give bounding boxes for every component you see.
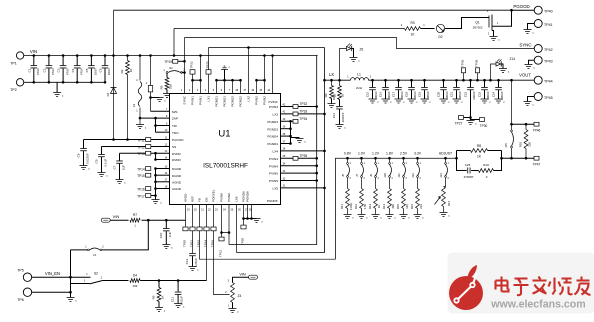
svg-text:R11: R11 <box>340 204 344 209</box>
svg-text:TP26: TP26 <box>211 240 215 248</box>
svg-text:TP43: TP43 <box>544 59 553 63</box>
svg-text:TP1: TP1 <box>10 62 17 66</box>
svg-text:0.022UF: 0.022UF <box>85 153 89 164</box>
wire TDI TDO tie <box>155 118 157 132</box>
wire FB select bus <box>336 158 457 259</box>
wire PVIN2 riser <box>257 79 265 81</box>
ground M/S <box>151 97 160 99</box>
svg-text:TP30: TP30 <box>480 124 488 128</box>
svg-text:TP38: TP38 <box>475 59 479 67</box>
capacitor C16 <box>384 79 387 82</box>
wire VOUT to divider <box>510 79 513 82</box>
svg-text:R17: R17 <box>447 200 451 206</box>
svg-text:PGND6: PGND6 <box>246 191 250 202</box>
capacitor C2 <box>48 56 50 66</box>
svg-text:1.2V: 1.2V <box>372 152 380 156</box>
svg-text:S1: S1 <box>169 66 173 70</box>
op-amp U1 ISL70001SRHF body <box>170 94 281 205</box>
resistor R7 <box>129 217 142 223</box>
test point TP6 <box>23 288 31 296</box>
capacitor C10 <box>165 220 167 228</box>
test point TP46 <box>534 122 539 126</box>
test point TP44 <box>534 76 542 84</box>
fuse J2 <box>150 56 152 112</box>
wire LX4 pin 36 <box>281 150 325 152</box>
svg-text:TP42: TP42 <box>544 48 553 52</box>
svg-text:TP19: TP19 <box>164 60 172 64</box>
svg-text:LX6: LX6 <box>235 196 239 202</box>
svg-text:L1: L1 <box>357 72 361 76</box>
capacitor C24 <box>497 79 500 82</box>
wire PGND1 PGND2 tie <box>217 79 241 81</box>
svg-text:TP40: TP40 <box>544 10 553 14</box>
capacitor C3 <box>62 56 64 66</box>
test point TP36 <box>461 68 465 73</box>
wire DVDD pin line <box>120 152 170 154</box>
svg-text:PGND2: PGND2 <box>231 96 235 107</box>
svg-text:10UF: 10UF <box>94 68 98 76</box>
svg-text:C20: C20 <box>436 91 440 97</box>
wire VIN top rail <box>24 55 318 57</box>
svg-text:2UH: 2UH <box>356 86 362 90</box>
svg-text:R9: R9 <box>324 93 328 97</box>
svg-text:PVIN2: PVIN2 <box>263 96 267 105</box>
svg-text:221: 221 <box>419 204 423 209</box>
capacitor C25 <box>457 151 467 171</box>
wire LX5 pin 31 <box>281 187 325 189</box>
svg-text:TP47: TP47 <box>533 162 541 166</box>
svg-text:J7: J7 <box>355 174 359 177</box>
test point TP38 <box>475 68 479 73</box>
test point TP14 <box>146 167 151 171</box>
svg-text:100: 100 <box>528 142 532 147</box>
svg-text:J1: J1 <box>93 253 97 257</box>
svg-text:C18: C18 <box>404 91 408 97</box>
svg-text:S2: S2 <box>94 271 98 275</box>
svg-text:1.5K: 1.5K <box>363 203 367 209</box>
wire TDI pin <box>156 125 170 127</box>
svg-text:J15: J15 <box>504 143 508 148</box>
svg-text:1.0V: 1.0V <box>358 152 366 156</box>
test point TP23 <box>197 227 202 231</box>
svg-text:PGND4: PGND4 <box>267 135 278 139</box>
resistor R2 <box>127 56 129 140</box>
svg-text:TP46: TP46 <box>533 128 541 132</box>
svg-text:R2: R2 <box>120 69 124 73</box>
test point TP15 <box>146 173 151 177</box>
resistor R18 snubber <box>339 80 341 85</box>
svg-text:1.8V: 1.8V <box>386 152 394 156</box>
capacitor C15 <box>371 79 374 82</box>
svg-text:R10: R10 <box>519 141 523 147</box>
capacitor C14 snubber <box>339 100 341 107</box>
test point TP17 <box>146 194 151 198</box>
wire J1 to AVDD node <box>102 220 148 250</box>
test point TP45 <box>534 93 542 101</box>
svg-text:100UF: 100UF <box>426 91 430 100</box>
svg-text:1UF: 1UF <box>121 165 125 171</box>
svg-text:PVIN6: PVIN6 <box>227 193 231 202</box>
svg-text:PVIN3: PVIN3 <box>269 100 278 104</box>
varistor Z2 <box>139 56 141 125</box>
wire R3 to D2 <box>421 28 435 30</box>
test point TP1 <box>16 52 23 59</box>
diode D1 <box>113 10 115 139</box>
wire sense node <box>510 123 513 126</box>
capacitor C7 <box>119 153 121 160</box>
svg-text:AGND: AGND <box>172 180 182 184</box>
svg-text:VIN_EN: VIN_EN <box>45 271 60 276</box>
svg-text:R5: R5 <box>159 85 163 89</box>
diode Z14 <box>489 79 492 82</box>
svg-text:C19: C19 <box>417 91 421 97</box>
capacitor C4 <box>76 56 78 66</box>
svg-text:EN: EN <box>205 198 209 202</box>
svg-text:10K: 10K <box>169 84 173 89</box>
test point TP26 <box>211 227 216 231</box>
svg-text:100UF: 100UF <box>486 91 490 100</box>
svg-text:10UF: 10UF <box>107 68 111 76</box>
svg-text:J9: J9 <box>369 174 373 177</box>
svg-text:C2: C2 <box>43 68 47 72</box>
svg-text:TP14: TP14 <box>137 167 145 171</box>
svg-text:3.3V: 3.3V <box>414 152 422 156</box>
svg-text:R8: R8 <box>477 144 481 148</box>
svg-text:PVIN1: PVIN1 <box>199 96 203 105</box>
transistor Q1 2N7002 <box>488 16 490 28</box>
svg-text:VIN: VIN <box>30 49 37 54</box>
svg-text:TP41: TP41 <box>544 23 553 27</box>
svg-text:AVDD: AVDD <box>184 193 188 202</box>
svg-text:C8: C8 <box>77 153 81 157</box>
svg-text:PGOOD: PGOOD <box>513 4 529 9</box>
svg-text:TP23: TP23 <box>197 240 201 248</box>
svg-text:C17: C17 <box>391 91 395 97</box>
svg-text:REF: REF <box>191 196 195 202</box>
wire TP6 tie <box>32 291 71 293</box>
svg-text:LX5: LX5 <box>272 187 278 191</box>
svg-text:PGND1: PGND1 <box>215 96 219 107</box>
svg-text:VIN: VIN <box>113 214 120 219</box>
svg-text:TP21: TP21 <box>190 240 194 248</box>
test point TP22 <box>192 74 194 93</box>
svg-text:C14: C14 <box>332 112 336 118</box>
svg-text:PGND5: PGND5 <box>267 199 278 203</box>
test point TP43 <box>534 56 542 64</box>
svg-text:C9: C9 <box>95 159 99 163</box>
ground S2 common <box>67 298 75 302</box>
svg-text:Z2: Z2 <box>132 103 136 107</box>
svg-text:1K: 1K <box>377 205 381 209</box>
test point TP21 <box>190 227 195 231</box>
test point TP40 <box>534 6 542 14</box>
svg-text:VOUT: VOUT <box>519 73 531 78</box>
svg-text:PVIN4: PVIN4 <box>269 157 278 161</box>
svg-text:C6: C6 <box>99 68 103 72</box>
wire LX3 pin 41 <box>281 113 325 115</box>
svg-text:VIN: VIN <box>239 272 246 276</box>
svg-text:Z14: Z14 <box>510 57 516 61</box>
svg-text:R16: R16 <box>410 203 414 209</box>
ground PGND right <box>291 137 300 139</box>
wire TDO pin <box>156 131 170 133</box>
svg-text:R14: R14 <box>382 203 386 209</box>
svg-text:0.01UF: 0.01UF <box>179 296 183 305</box>
resistor R5 <box>166 73 168 77</box>
svg-text:C21: C21 <box>449 91 453 97</box>
svg-text:47UF: 47UF <box>79 68 83 76</box>
svg-text:47UF: 47UF <box>36 68 40 76</box>
wire SS pin line <box>102 146 170 148</box>
LED D2 <box>436 24 444 32</box>
capacitor C8 <box>83 140 85 149</box>
svg-text:U1: U1 <box>218 129 230 140</box>
capacitor C23 <box>483 79 486 82</box>
wire PVIN3 pin 42 <box>281 106 317 108</box>
svg-text:TP13: TP13 <box>137 152 145 156</box>
wire PVIN1 riser <box>193 79 201 81</box>
test point TP24 <box>204 227 209 231</box>
svg-text:TP27: TP27 <box>455 122 463 126</box>
wire S2 to D4 <box>103 280 130 282</box>
svg-text:TP15: TP15 <box>137 174 145 178</box>
svg-text:J10: J10 <box>383 173 387 178</box>
svg-text:LX3: LX3 <box>272 113 278 117</box>
test point TP42 <box>534 45 542 53</box>
test point TP34 <box>293 119 298 123</box>
svg-text:R6: R6 <box>152 295 156 299</box>
wire PVIN3 riser <box>272 56 274 94</box>
svg-text:20: 20 <box>341 94 345 98</box>
wire SYNC column <box>184 38 186 94</box>
wire DGND AGND ties <box>155 169 157 200</box>
svg-text:PGND1: PGND1 <box>223 96 227 107</box>
svg-text:J12: J12 <box>411 173 415 178</box>
wire SYNC bus <box>185 38 535 49</box>
svg-text:R3: R3 <box>410 21 414 25</box>
svg-text:0.22UF: 0.22UF <box>194 258 198 267</box>
ground PGND bottom <box>253 219 261 223</box>
wire PGND3 PGND4 tie <box>281 128 291 130</box>
svg-text:ADJUST: ADJUST <box>439 152 452 156</box>
svg-text:TDO: TDO <box>172 131 179 135</box>
test point TP25 <box>208 48 210 94</box>
resistor R3 <box>405 27 421 31</box>
svg-text:499: 499 <box>133 284 138 288</box>
svg-text:1UF: 1UF <box>168 232 172 238</box>
jumper J1 <box>71 249 88 251</box>
test point TP41 <box>534 20 542 28</box>
svg-text:TP32: TP32 <box>300 102 308 106</box>
svg-text:C15: C15 <box>365 91 369 97</box>
svg-text:3.01K: 3.01K <box>349 203 353 211</box>
resistor R8 <box>457 150 471 152</box>
svg-text:J11: J11 <box>397 173 401 178</box>
wire PORSEL pin column <box>214 205 230 295</box>
capacitor C22 <box>469 79 472 82</box>
svg-text:PGOOD: PGOOD <box>172 138 184 142</box>
wire PGOOD bus <box>114 9 512 11</box>
svg-text:ISL70001SRHF: ISL70001SRHF <box>203 163 248 170</box>
wire PVIN vertical bus <box>229 56 318 245</box>
wire VOUT rail <box>369 79 535 81</box>
test point TP33 <box>293 112 298 116</box>
test point TP20 <box>183 227 188 231</box>
wire FB pin column <box>200 205 336 260</box>
svg-text:www.elecfans.com: www.elecfans.com <box>490 299 585 311</box>
test point TP28 <box>243 219 245 226</box>
svg-text:316: 316 <box>405 204 409 209</box>
svg-text:FB: FB <box>198 198 202 202</box>
svg-text:Z6: Z6 <box>360 48 364 52</box>
svg-text:J13: J13 <box>439 173 443 178</box>
svg-text:C22: C22 <box>463 91 467 97</box>
svg-text:TP16: TP16 <box>137 187 145 191</box>
wire TP5 to S2 <box>32 276 91 278</box>
wire PVIN4 pin 35 <box>281 157 317 159</box>
svg-text:D4: D4 <box>133 274 137 278</box>
svg-text:TP36: TP36 <box>461 59 465 67</box>
capacitor C11 <box>177 281 179 292</box>
svg-text:1K: 1K <box>129 69 133 73</box>
svg-text:4700PF: 4700PF <box>464 175 474 179</box>
test point TP12 <box>146 145 151 149</box>
ground input rail <box>56 82 58 92</box>
svg-text:R7: R7 <box>133 213 137 217</box>
svg-text:DGND: DGND <box>172 174 182 178</box>
svg-text:PVIN5: PVIN5 <box>269 172 278 176</box>
capacitor C20 <box>442 79 445 82</box>
wire PGOOD to TP40 <box>510 9 513 12</box>
test point TP13 <box>146 151 151 155</box>
watermark elecfans logo <box>448 253 594 314</box>
wire PGOOD pin line <box>84 139 170 141</box>
svg-text:D2: D2 <box>438 35 442 39</box>
wire PGND6 pins <box>243 205 245 219</box>
svg-text:C7: C7 <box>113 165 117 169</box>
diode Z6 <box>340 49 347 81</box>
svg-text:PORSEL: PORSEL <box>212 189 216 202</box>
svg-text:PGND4: PGND4 <box>267 142 278 146</box>
svg-text:1K: 1K <box>160 296 164 300</box>
svg-text:C1: C1 <box>27 68 31 72</box>
svg-text:M/S: M/S <box>172 110 178 114</box>
svg-text:TP28: TP28 <box>241 238 245 246</box>
resistor D4 <box>129 278 142 284</box>
capacitor C18 <box>410 79 413 82</box>
test point TP11 <box>146 138 151 142</box>
wire PVIN4 pin 34 <box>281 165 317 167</box>
resistor R6 <box>158 281 160 288</box>
wire PVIN6 pins join <box>222 205 230 233</box>
test point TP5 <box>23 273 31 281</box>
wire PGND3 pin 40 <box>281 120 299 122</box>
svg-text:PVIN4: PVIN4 <box>269 164 278 168</box>
svg-text:TDI: TDI <box>172 124 177 128</box>
test point TP2 <box>16 79 23 86</box>
svg-text:PGND3: PGND3 <box>267 127 278 131</box>
svg-text:TP17: TP17 <box>137 194 145 198</box>
svg-text:DVDD: DVDD <box>172 158 182 162</box>
svg-text:100UF: 100UF <box>458 91 462 100</box>
wire REF pin column <box>192 205 194 254</box>
svg-text:LX2: LX2 <box>247 96 251 102</box>
svg-text:TP2: TP2 <box>10 88 17 92</box>
svg-text:C3: C3 <box>57 68 61 72</box>
svg-text:PVIN1: PVIN1 <box>191 96 195 105</box>
svg-text:R18: R18 <box>332 94 336 100</box>
svg-text:D1: D1 <box>106 92 110 96</box>
svg-text:C24: C24 <box>491 91 495 97</box>
wire LX vertical bus <box>237 48 325 253</box>
svg-text:C12: C12 <box>185 258 189 264</box>
svg-text:AGND: AGND <box>172 187 182 191</box>
svg-text:Q1: Q1 <box>475 21 479 25</box>
wire LX2 riser <box>248 48 250 94</box>
test point TP31 <box>221 233 223 238</box>
wire divider top node <box>502 157 535 159</box>
svg-text:Z4: Z4 <box>238 294 242 298</box>
svg-text:TP6: TP6 <box>17 298 24 302</box>
svg-text:100UF: 100UF <box>472 91 476 100</box>
svg-text:TP33: TP33 <box>300 110 308 114</box>
svg-text:TP35: TP35 <box>300 154 308 158</box>
test point TP27 <box>461 117 471 119</box>
wire EN pin column <box>206 205 208 281</box>
test point TP32 <box>293 105 298 109</box>
svg-text:R19: R19 <box>483 163 489 167</box>
svg-text:ZAP: ZAP <box>172 117 178 121</box>
wire AVDD line <box>110 219 185 221</box>
wire D2 to Q1 gate <box>445 18 489 29</box>
ground PGND top <box>224 70 226 81</box>
net flag VIN <box>101 218 110 222</box>
svg-text:TP20: TP20 <box>183 240 187 248</box>
svg-text:0.8V: 0.8V <box>344 152 352 156</box>
svg-text:PVIN2: PVIN2 <box>255 96 259 105</box>
svg-text:0.1UF: 0.1UF <box>103 158 107 166</box>
svg-text:TP34: TP34 <box>300 117 308 121</box>
wire LX top bus <box>209 47 325 49</box>
svg-text:PGND2: PGND2 <box>239 96 243 107</box>
svg-text:PGND3: PGND3 <box>267 120 278 124</box>
svg-text:47UF: 47UF <box>51 68 55 76</box>
capacitor C17 <box>397 79 400 82</box>
svg-text:TP11: TP11 <box>137 138 145 142</box>
svg-text:TP12: TP12 <box>137 145 145 149</box>
capacitor C5 <box>90 56 92 66</box>
svg-text:C10: C10 <box>159 232 163 238</box>
wire J1 left leg <box>70 250 72 298</box>
capacitor C19 <box>423 79 426 82</box>
svg-text:C25: C25 <box>465 163 471 167</box>
svg-text:2N7002: 2N7002 <box>473 26 483 30</box>
svg-text:TP25: TP25 <box>206 61 210 69</box>
svg-text:47UF: 47UF <box>65 68 69 76</box>
wire D4 to EN <box>140 280 206 282</box>
wire PVIN5 pin 33 <box>281 172 317 174</box>
svg-text:J5: J5 <box>341 174 345 177</box>
jumper J15 <box>511 124 513 130</box>
capacitor C21 <box>455 79 458 82</box>
wire LX6 pin column <box>236 205 238 253</box>
capacitor C1 <box>33 56 35 66</box>
svg-text:PVIN3: PVIN3 <box>269 105 278 109</box>
wire DVDD2 tie <box>156 153 170 159</box>
svg-text:2.5V: 2.5V <box>400 152 408 156</box>
svg-text:R15: R15 <box>396 203 400 209</box>
svg-text:PVIN6: PVIN6 <box>220 193 224 202</box>
